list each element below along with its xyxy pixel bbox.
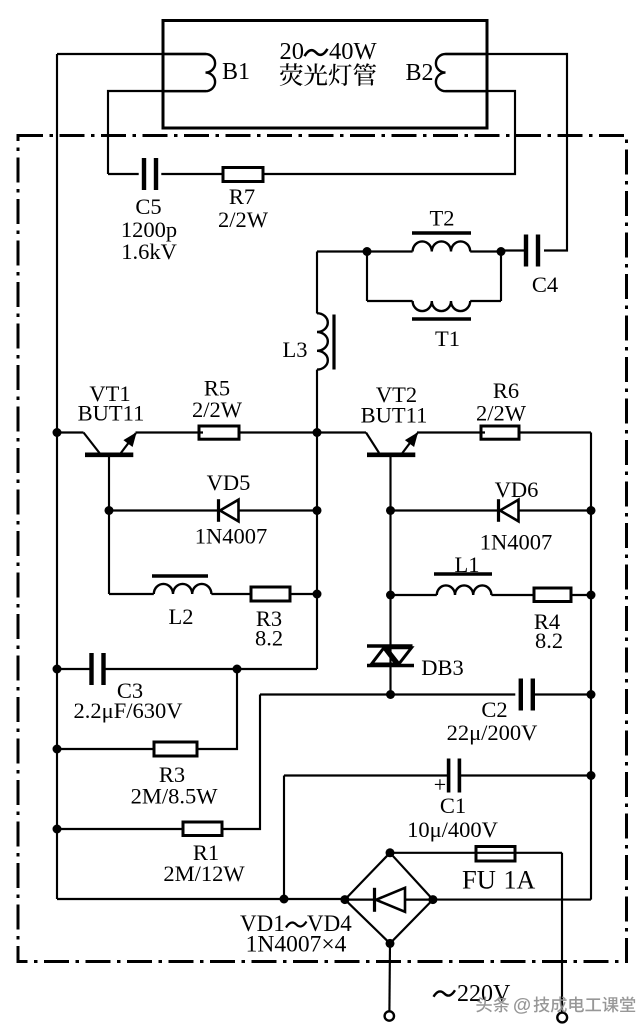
wire loop right side [500, 252, 502, 302]
inductor L1 [434, 552, 492, 595]
resistor R1 2M/12W [163, 822, 245, 886]
svg-text:2M/12W: 2M/12W [163, 861, 245, 886]
wire midpoint to VT2 collector [317, 431, 366, 433]
wire L2 to R3 [211, 593, 252, 595]
svg-text:20: 20 [280, 38, 305, 65]
transformer winding T2 [412, 206, 471, 252]
transistor VT2 BUT11 [361, 382, 428, 455]
node C1 right junction [587, 771, 596, 780]
node C3-R3 junction [233, 665, 242, 674]
transistor VT1 BUT11 [78, 381, 145, 462]
wire VT1 base lead [108, 456, 110, 594]
lamp filament B1 [163, 54, 250, 91]
node R3 2M left junction [53, 745, 62, 754]
node VD5 right junction [313, 506, 322, 515]
node VD6 right junction [587, 506, 596, 515]
resistor R3 2M/8.5W [131, 742, 219, 809]
capacitor C2 [447, 679, 538, 746]
wire loop top left seg [367, 250, 413, 252]
wire C1 right seg [460, 774, 591, 776]
svg-text:2M/8.5W: 2M/8.5W [131, 784, 219, 809]
svg-text:C1: C1 [440, 793, 466, 818]
wire bridge bottom lead [388, 943, 391, 1011]
wire VT2 emitter to R6 [417, 431, 485, 433]
svg-text:DB3: DB3 [421, 655, 464, 680]
wire C3 left lead [57, 668, 92, 670]
wire C1 left down lead [283, 776, 285, 900]
svg-text:L3: L3 [283, 337, 308, 362]
svg-text:R7: R7 [229, 184, 255, 209]
svg-text:C4: C4 [532, 272, 558, 297]
wire R4 to right rail [571, 594, 591, 596]
terminal AC right [557, 1013, 567, 1023]
node R4 right junction [587, 591, 596, 600]
wire VD5 left seg [109, 509, 217, 511]
svg-text:22μ/200V: 22μ/200V [447, 720, 538, 745]
svg-text:2/2W: 2/2W [218, 207, 269, 232]
wire L3 top lead [316, 252, 318, 314]
svg-text:1A: 1A [504, 866, 536, 895]
svg-text:B1: B1 [222, 59, 250, 85]
node midpoint junction [313, 428, 322, 437]
resistor R7 [218, 168, 269, 233]
diode VD6 1N4007 [480, 477, 553, 555]
wire fuse to AC terminal [561, 853, 563, 1013]
wire R7 to B2 lower [263, 91, 515, 174]
wire C1 left seg [284, 774, 448, 776]
wire left rail [56, 54, 58, 899]
svg-text:R6: R6 [493, 378, 519, 403]
wire R3 to midpoint rail [290, 593, 317, 595]
wire bottom run to bridge [57, 898, 345, 900]
wire C4 left to T-node [501, 249, 526, 251]
terminal AC left [385, 1011, 394, 1020]
svg-text:1N4007: 1N4007 [480, 530, 553, 555]
svg-text:C2: C2 [481, 697, 507, 722]
wire right rail [590, 433, 592, 900]
wire R6 to right rail [519, 431, 591, 433]
svg-text:T2: T2 [430, 206, 455, 231]
node bridge top vertex [386, 848, 395, 857]
wire L1 to R4 [491, 594, 534, 596]
svg-text:T1: T1 [435, 326, 460, 351]
svg-text:2/2W: 2/2W [476, 401, 527, 426]
wire C2 right seg [533, 693, 591, 695]
svg-text:BUT11: BUT11 [78, 401, 145, 426]
transformer winding T1 [412, 301, 471, 351]
wire loop top right seg [470, 250, 501, 252]
node VD6 left junction [386, 506, 395, 515]
lamp filament B2 [405, 54, 487, 91]
wire R1 right lead [222, 695, 260, 830]
svg-text:10μ/400V: 10μ/400V [407, 817, 498, 842]
node R1 left junction [53, 825, 62, 834]
wire C5 to R7 [161, 173, 223, 175]
capacitor C5 [121, 158, 177, 264]
node bridge right vertex [428, 895, 437, 904]
watermark 头条@技成电工课堂 [476, 994, 635, 1015]
wire loop bottom left seg [367, 300, 413, 302]
wire base rail to L2 [109, 593, 154, 595]
svg-text:1N4007×4: 1N4007×4 [246, 932, 347, 958]
diac DB3 [367, 646, 464, 680]
svg-text:B2: B2 [405, 60, 433, 86]
svg-text:C5: C5 [135, 194, 161, 219]
wire B1 lower lead [108, 91, 206, 174]
resistor R3 8.2 [251, 587, 290, 651]
wire left rail to VT1 collector [57, 431, 84, 433]
svg-text:@: @ [513, 994, 531, 1015]
node bridge bottom vertex [386, 939, 395, 948]
node C3 left junction [53, 665, 62, 674]
bridge rectifier VD1~VD4 [240, 853, 433, 958]
wire R1 left lead [57, 828, 183, 830]
svg-text:1.6kV: 1.6kV [121, 239, 177, 264]
wire VT2 base lead upper [389, 456, 391, 667]
resistor R6 [476, 378, 527, 439]
resistor R5 [192, 376, 243, 440]
resistor R4 8.2 [534, 588, 571, 653]
wire B1 upper to left rail [57, 53, 206, 55]
svg-text:VD5: VD5 [207, 470, 251, 495]
wire C2 left seg [260, 693, 515, 695]
wire B2 upper to C4 right [446, 54, 568, 251]
node T-loop left junction [363, 247, 372, 256]
wire loop bottom right seg [470, 300, 501, 302]
svg-text:2/2W: 2/2W [192, 397, 243, 422]
fuse FU 1A [462, 847, 536, 895]
wire VD5 right seg [240, 509, 318, 511]
node L2-R3 junction [313, 590, 322, 599]
label 20~40W [280, 38, 378, 65]
node L1 left junction [386, 591, 395, 600]
wire R5 to midpoint node [239, 431, 317, 433]
wire L3 bottom lead [316, 370, 318, 433]
svg-text:VD6: VD6 [495, 477, 539, 502]
svg-text:40W: 40W [329, 38, 378, 65]
node C2 right junction [587, 690, 596, 699]
fluorescent lamp box [163, 21, 487, 129]
wire midpoint rail [316, 433, 318, 670]
wire R3 2M left lead [57, 748, 154, 750]
dash-dot enclosure border [18, 136, 627, 962]
wire bridge right to right rail [433, 899, 591, 901]
svg-text:FU: FU [462, 865, 496, 895]
node VD5 left junction [105, 506, 114, 515]
label ~220V [434, 981, 512, 1007]
svg-text:1N4007: 1N4007 [195, 524, 268, 549]
capacitor C1 [407, 759, 498, 843]
wire VT1 emitter to R5 [136, 431, 204, 433]
wire loop left side [366, 252, 368, 302]
wire midnode to loop left [317, 250, 367, 252]
capacitor C3 [74, 653, 183, 723]
diode VD5 1N4007 [195, 470, 268, 549]
svg-text:8.2: 8.2 [255, 626, 283, 651]
svg-text:L1: L1 [455, 552, 480, 577]
wire VD6 left seg [391, 509, 498, 511]
inductor L3 [283, 313, 335, 369]
wire base rail to L1 [391, 594, 437, 596]
svg-text:8.2: 8.2 [535, 628, 563, 653]
svg-text:L2: L2 [169, 604, 194, 629]
node T-loop right junction [497, 247, 506, 256]
wire DB3 bottom lead [389, 667, 391, 695]
capacitor C4 [526, 235, 558, 298]
svg-text:2.2μF/630V: 2.2μF/630V [74, 698, 183, 723]
node DB3 bottom junction [386, 690, 395, 699]
wire C5 left lead [108, 173, 139, 175]
wire R3 2M right lead [197, 669, 237, 749]
wire VD6 right seg [520, 509, 592, 511]
node VT1 collector junction [53, 428, 62, 437]
svg-text:BUT11: BUT11 [361, 403, 428, 428]
label 荧光灯管 (fluorescent lamp tube) [280, 63, 376, 86]
node bridge left vertex [340, 895, 349, 904]
wire C3 right seg [104, 668, 317, 670]
node C1 bottom junction [280, 895, 289, 904]
inductor L2 [152, 576, 211, 629]
wire bridge top to fuse [390, 852, 562, 854]
